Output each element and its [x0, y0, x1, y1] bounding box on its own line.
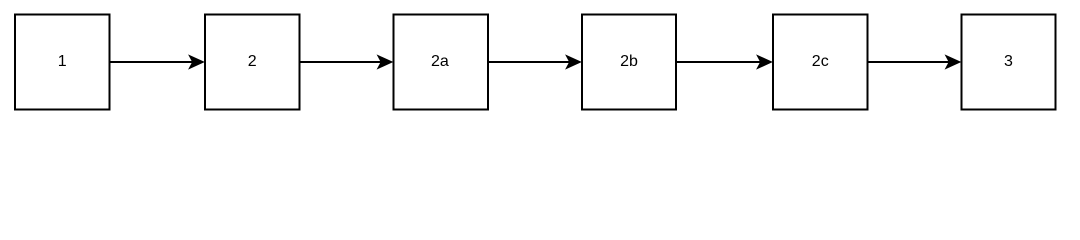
box 2b — [582, 15, 676, 110]
box 1 — [15, 15, 110, 110]
svg-text:1: 1 — [58, 53, 67, 70]
box 2c — [773, 15, 868, 110]
svg-text:2a: 2a — [431, 53, 449, 70]
wire arrow 1 to 2 — [111, 55, 204, 68]
svg-text:2b: 2b — [620, 53, 638, 70]
wire arrow 2 to 2a — [301, 55, 393, 68]
wire arrow 2a to 2b — [489, 55, 581, 68]
box 2 — [205, 15, 300, 110]
box 2a — [394, 15, 489, 110]
svg-text:2: 2 — [248, 53, 257, 70]
wire arrow 2b to 2c — [677, 55, 772, 68]
svg-text:2c: 2c — [812, 53, 829, 70]
svg-text:3: 3 — [1004, 53, 1013, 70]
wire arrow 2c to 3 — [869, 55, 961, 68]
box 3 — [962, 15, 1056, 110]
